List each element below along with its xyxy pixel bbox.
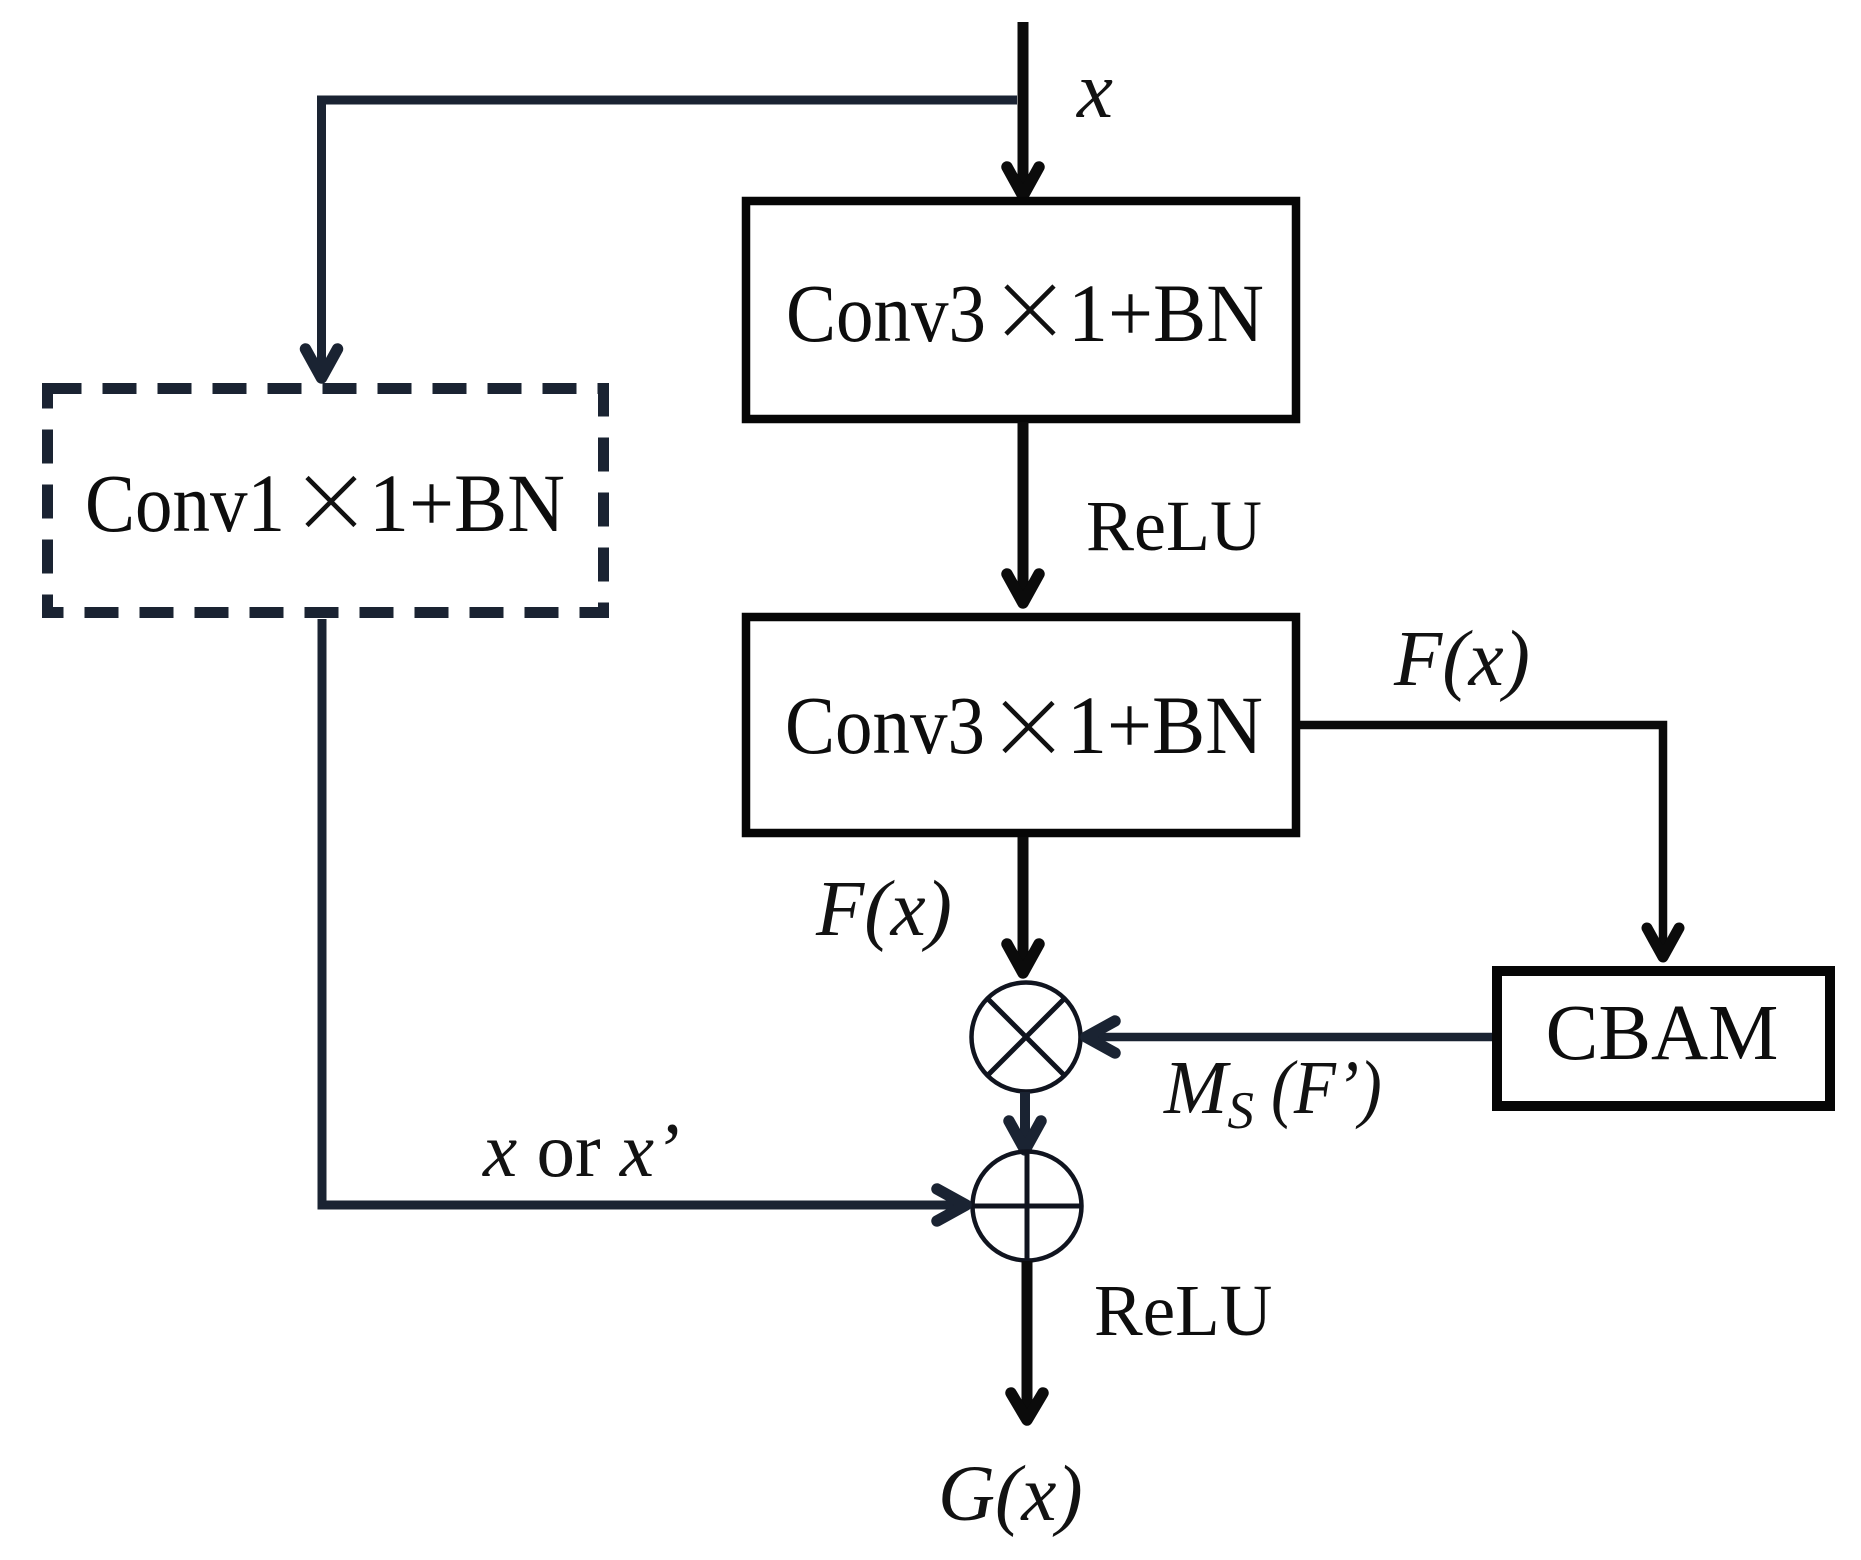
svg-text:F(x): F(x): [1393, 616, 1530, 703]
svg-text:Conv1: Conv1: [85, 457, 285, 549]
wire: input vertical line from top: [1018, 22, 1029, 197]
box CBAM: [1497, 971, 1830, 1106]
plus node (circle with +): [973, 1152, 1082, 1261]
arrowhead into CBAM box: [1647, 928, 1679, 957]
wire: skip connection from dashed box down and right into plus: [322, 619, 958, 1205]
svg-text:CBAM: CBAM: [1546, 990, 1779, 1077]
svg-text:ReLU: ReLU: [1086, 486, 1262, 566]
svg-text:F(x): F(x): [815, 866, 952, 953]
wire: CBAM to multiply: [1090, 1033, 1492, 1042]
svg-text:1+BN: 1+BN: [1067, 679, 1263, 771]
multiply node (circle with X): [972, 983, 1081, 1092]
arrowhead into Conv1x1 dashed box: [306, 349, 338, 378]
wire: box1 to box2 vertical: [1018, 422, 1029, 603]
svg-text:MS (F’): MS (F’): [1163, 1046, 1382, 1140]
box Conv3x1+BN (top): [746, 201, 1296, 419]
arrowhead output: [1011, 1393, 1043, 1420]
wire: box2 down to multiply: [1018, 837, 1029, 968]
arrowhead into plus from left: [937, 1189, 966, 1221]
arrowhead into multiply node: [1007, 944, 1039, 973]
arrowhead into multiply from CBAM: [1086, 1021, 1115, 1053]
arrowhead into plus node: [1009, 1121, 1041, 1150]
svg-text:ReLU: ReLU: [1094, 1270, 1272, 1351]
svg-text:1+BN: 1+BN: [1068, 267, 1264, 359]
box Conv1x1+BN (dashed): [48, 389, 604, 613]
svg-text:1+BN: 1+BN: [369, 457, 565, 549]
svg-text:x: x: [1076, 45, 1113, 135]
wire: multiply to plus: [1020, 1092, 1030, 1146]
svg-text:G(x): G(x): [938, 1451, 1083, 1538]
svg-text:Conv3: Conv3: [786, 267, 986, 359]
box Conv3x1+BN (second): [746, 617, 1296, 833]
wire: plus down to output: [1022, 1261, 1033, 1415]
arrowhead into second Conv3x1 box: [1007, 574, 1039, 603]
svg-text:x or x’: x or x’: [482, 1107, 680, 1193]
wire: F(x) elbow from box2 right to CBAM: [1300, 725, 1663, 952]
svg-text:Conv3: Conv3: [785, 679, 985, 771]
wire: top horizontal skip-connection line: [322, 100, 1018, 378]
arrowhead into Conv3x1 box U1: [1007, 167, 1039, 196]
